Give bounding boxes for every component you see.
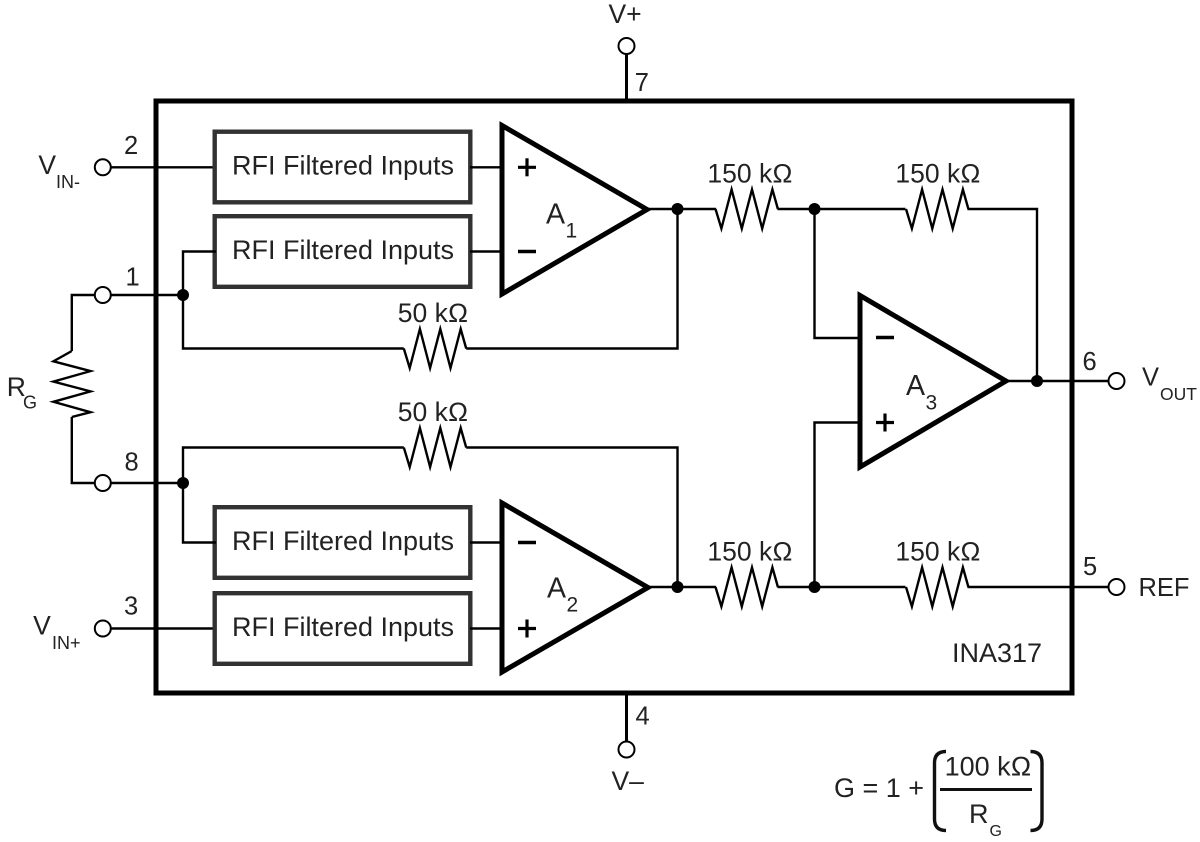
svg-text:2: 2 (124, 132, 138, 160)
wire V+ stub (625, 54, 628, 101)
wire A1 output to resistor (645, 208, 716, 210)
RFI box 4 (215, 593, 471, 664)
svg-text:V: V (38, 150, 56, 180)
wire junction to A3 non-inverting input (815, 423, 863, 588)
svg-text:REF: REF (1139, 574, 1190, 602)
wire V- stub pin 4 (625, 693, 628, 741)
wire RG bottom leg (72, 417, 95, 483)
svg-text:V: V (1142, 364, 1159, 392)
svg-text:OUT: OUT (1160, 384, 1197, 404)
junction dot A1 output (672, 203, 684, 215)
wire junction1 to RFI box 2 input (183, 252, 216, 296)
svg-text:RFI Filtered Inputs: RFI Filtered Inputs (232, 151, 454, 181)
svg-text:6: 6 (1083, 348, 1097, 376)
resistor 50k top (404, 329, 466, 368)
svg-text:50 kΩ: 50 kΩ (398, 298, 468, 328)
wire junction8 to RFI box 3 input (183, 483, 216, 543)
RFI box 1 (215, 132, 471, 203)
svg-text:A: A (906, 370, 925, 402)
IC boundary box INA317 (156, 101, 1072, 693)
op-amp A3 (860, 296, 1006, 468)
gain equation G = 1 + (100k/RG) (834, 752, 1042, 841)
wire RFI box 4 to A2 + (470, 627, 504, 629)
wire A3 output to VOUT pin 6 (1003, 380, 1109, 382)
terminal circle pin 6 (1109, 373, 1125, 389)
label VIN- (38, 150, 80, 192)
wire feedback to A3 output node (968, 209, 1038, 381)
svg-text:100 kΩ: 100 kΩ (945, 752, 1032, 782)
junction dot bottom middle (809, 581, 821, 593)
label VIN+ (33, 611, 80, 654)
svg-text:5: 5 (1083, 553, 1097, 581)
svg-text:3: 3 (926, 392, 938, 415)
op-amp A2 (502, 503, 648, 672)
svg-text:G: G (23, 393, 37, 413)
op-amp A1 (502, 126, 647, 295)
svg-text:A: A (547, 573, 566, 605)
wire RFI box 3 to A2 - (470, 541, 504, 543)
wire RG top leg (72, 295, 95, 351)
wire RFI box 1 to A1 + (470, 166, 504, 168)
terminal circle pin 3 (95, 621, 111, 637)
terminal circle pin 1 (95, 287, 111, 303)
wire junction to A3 inverting input (815, 209, 863, 338)
wire between top resistors (778, 208, 906, 210)
svg-text:RFI Filtered Inputs: RFI Filtered Inputs (232, 235, 454, 265)
svg-text:A: A (546, 199, 565, 231)
label VOUT (1142, 364, 1197, 405)
svg-text:G = 1 +: G = 1 + (834, 773, 924, 803)
resistor 150k top-right (906, 190, 968, 229)
svg-text:7: 7 (635, 69, 649, 97)
V+ terminal circle pin 7 (619, 38, 635, 54)
svg-text:V: V (33, 611, 51, 641)
junction dot top middle (809, 203, 821, 215)
svg-text:4: 4 (636, 703, 650, 731)
svg-text:V+: V+ (609, 0, 642, 29)
RFI box 2 (215, 216, 471, 287)
resistor RG (vertical) (53, 351, 90, 417)
svg-text:INA317: INA317 (952, 638, 1042, 668)
svg-text:1: 1 (126, 264, 140, 292)
svg-text:150 kΩ: 150 kΩ (707, 537, 792, 567)
label RG (7, 372, 37, 413)
terminal circle pin 8 (95, 475, 111, 491)
svg-text:1: 1 (566, 220, 578, 243)
wire pin 8 into box (111, 482, 183, 484)
resistor 150k bottom-left (716, 568, 778, 607)
svg-text:3: 3 (124, 593, 138, 621)
svg-text:50 kΩ: 50 kΩ (398, 397, 468, 427)
svg-text:IN+: IN+ (52, 633, 81, 653)
svg-text:8: 8 (125, 449, 139, 477)
junction dot pin 8 node (177, 477, 189, 489)
svg-text:150 kΩ: 150 kΩ (707, 159, 792, 189)
wire between bottom resistors (778, 586, 906, 588)
resistor 150k top-left (716, 190, 778, 229)
svg-text:G: G (990, 823, 1002, 840)
wire pin 3 to RFI box 4 (111, 627, 214, 629)
svg-text:150 kΩ: 150 kΩ (895, 537, 980, 567)
terminal circle pin 5 (1109, 579, 1125, 595)
junction dot pin 1 node (177, 289, 189, 301)
wire 50k top to A1 output junction (466, 209, 677, 349)
wire resistor to REF pin 5 (968, 586, 1110, 588)
svg-text:2: 2 (567, 594, 579, 617)
V- terminal circle pin 4 (619, 742, 635, 758)
RFI box 3 (215, 507, 471, 578)
svg-text:IN-: IN- (56, 172, 80, 192)
wire A2 output to resistor (645, 586, 716, 588)
wire 50k top feedback: junction1 down, across resistor, up to A1 output (183, 295, 404, 349)
junction dot A2 output (672, 581, 684, 593)
wire 50k bottom feedback: junction8 up, across resistor (183, 448, 404, 484)
svg-text:R: R (969, 799, 989, 829)
svg-text:150 kΩ: 150 kΩ (895, 159, 980, 189)
svg-text:RFI Filtered Inputs: RFI Filtered Inputs (232, 526, 454, 556)
wire RFI box 2 to A1 - (470, 250, 504, 252)
resistor 50k bottom (404, 428, 466, 467)
svg-text:RFI Filtered Inputs: RFI Filtered Inputs (232, 612, 454, 642)
wire pin 1 into box (111, 294, 183, 296)
wire 50k bottom to A2 output junction (466, 448, 677, 588)
junction dot A3 output (1031, 375, 1043, 387)
svg-text:V–: V– (612, 766, 645, 796)
terminal circle pin 2 (95, 159, 111, 175)
resistor 150k bottom-right (906, 568, 968, 607)
wire pin 2 to RFI box 1 (111, 166, 214, 168)
